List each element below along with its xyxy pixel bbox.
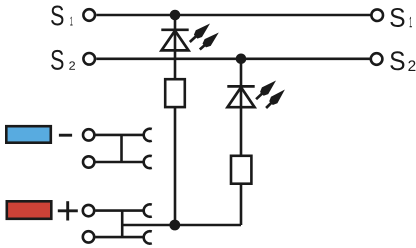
resistor R1 [165,79,185,107]
terminal plus B [83,231,94,242]
wire plus B [95,236,143,239]
red marker (plus) [7,201,52,219]
node bottom junction [169,220,180,231]
label minus [59,134,72,137]
wire chain2 vertical [240,59,243,225]
contact plus A [144,204,152,216]
blue marker (minus) [6,126,51,143]
label S1 right [390,8,412,27]
resistor R2 [231,156,251,184]
wire minus B [96,161,144,164]
jumper plus [121,211,124,238]
terminal minus A [83,129,94,140]
wire bottom horizontal [122,224,241,227]
label S2 right [390,51,415,71]
terminal S2 left [83,53,95,65]
label S1 left [51,6,73,26]
LED D2 [227,81,285,109]
node junction on S1 [170,10,181,21]
wire plus A [95,209,143,212]
wire S1 [96,14,371,17]
contact minus A [144,129,152,141]
jumper minus [120,135,123,162]
node junction on S2 [236,54,247,65]
label plus [58,201,78,220]
terminal plus A [83,205,94,216]
contact minus B [144,156,152,168]
terminal S2 right [371,53,383,65]
wire S2 [96,57,370,60]
terminal minus B [83,156,94,167]
wire minus A [96,134,144,137]
LED D1 [161,24,219,51]
terminal S1 left [83,9,95,21]
contact plus B [144,231,152,243]
label S2 left [51,50,75,70]
wire chain1 vertical [174,15,177,225]
terminal S1 right [371,9,383,21]
